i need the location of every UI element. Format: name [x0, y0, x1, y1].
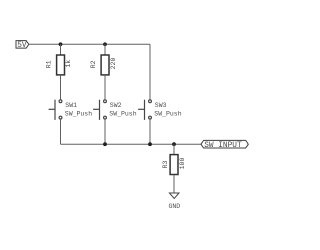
wire R3 bottom: [173, 175, 175, 194]
switch SW1: [49, 100, 62, 120]
wire top rail: [29, 43, 150, 45]
wire bottom rail: [61, 143, 202, 145]
svg-text:SW2: SW2: [110, 102, 122, 109]
svg-text:SW3: SW3: [155, 102, 167, 109]
svg-text:R2: R2: [90, 60, 97, 68]
svg-text:SW_Push: SW_Push: [65, 111, 92, 118]
svg-text:5V: 5V: [17, 42, 27, 50]
node junction SW3 bottom: [148, 142, 152, 146]
wire top-right corner to SW3: [149, 44, 151, 100]
svg-text:1k: 1k: [65, 60, 72, 68]
svg-text:SW_Push: SW_Push: [109, 111, 136, 118]
power flag 5V: [16, 41, 29, 49]
resistor R3: [170, 155, 178, 175]
svg-text:100: 100: [179, 158, 186, 170]
wire R3 top: [173, 144, 175, 154]
wire R1 bottom: [60, 75, 62, 100]
global label SW_INPUT flag: [201, 140, 248, 148]
svg-text:GND: GND: [169, 203, 181, 210]
wire R1 top: [60, 44, 62, 55]
wire R2 top: [104, 44, 106, 55]
wire SW2 bottom: [104, 119, 106, 144]
node junction R3 top: [172, 142, 176, 146]
resistor R1: [57, 55, 65, 75]
switch SW2: [93, 100, 106, 120]
wire R2 bottom: [104, 75, 106, 100]
node junction R1 top: [59, 42, 63, 46]
wire SW3 bottom: [149, 119, 151, 144]
switch SW3: [138, 100, 151, 120]
node junction R2 top: [103, 42, 107, 46]
wire SW1 bottom: [60, 119, 62, 144]
svg-text:220: 220: [110, 58, 117, 70]
svg-text:R1: R1: [45, 60, 52, 68]
resistor R2: [101, 55, 109, 75]
ground symbol: [169, 193, 179, 199]
svg-text:R3: R3: [162, 161, 169, 169]
node junction SW2 bottom: [103, 142, 107, 146]
svg-text:SW1: SW1: [65, 102, 77, 109]
svg-text:SW_INPUT: SW_INPUT: [204, 142, 242, 150]
svg-text:SW_Push: SW_Push: [154, 111, 181, 118]
